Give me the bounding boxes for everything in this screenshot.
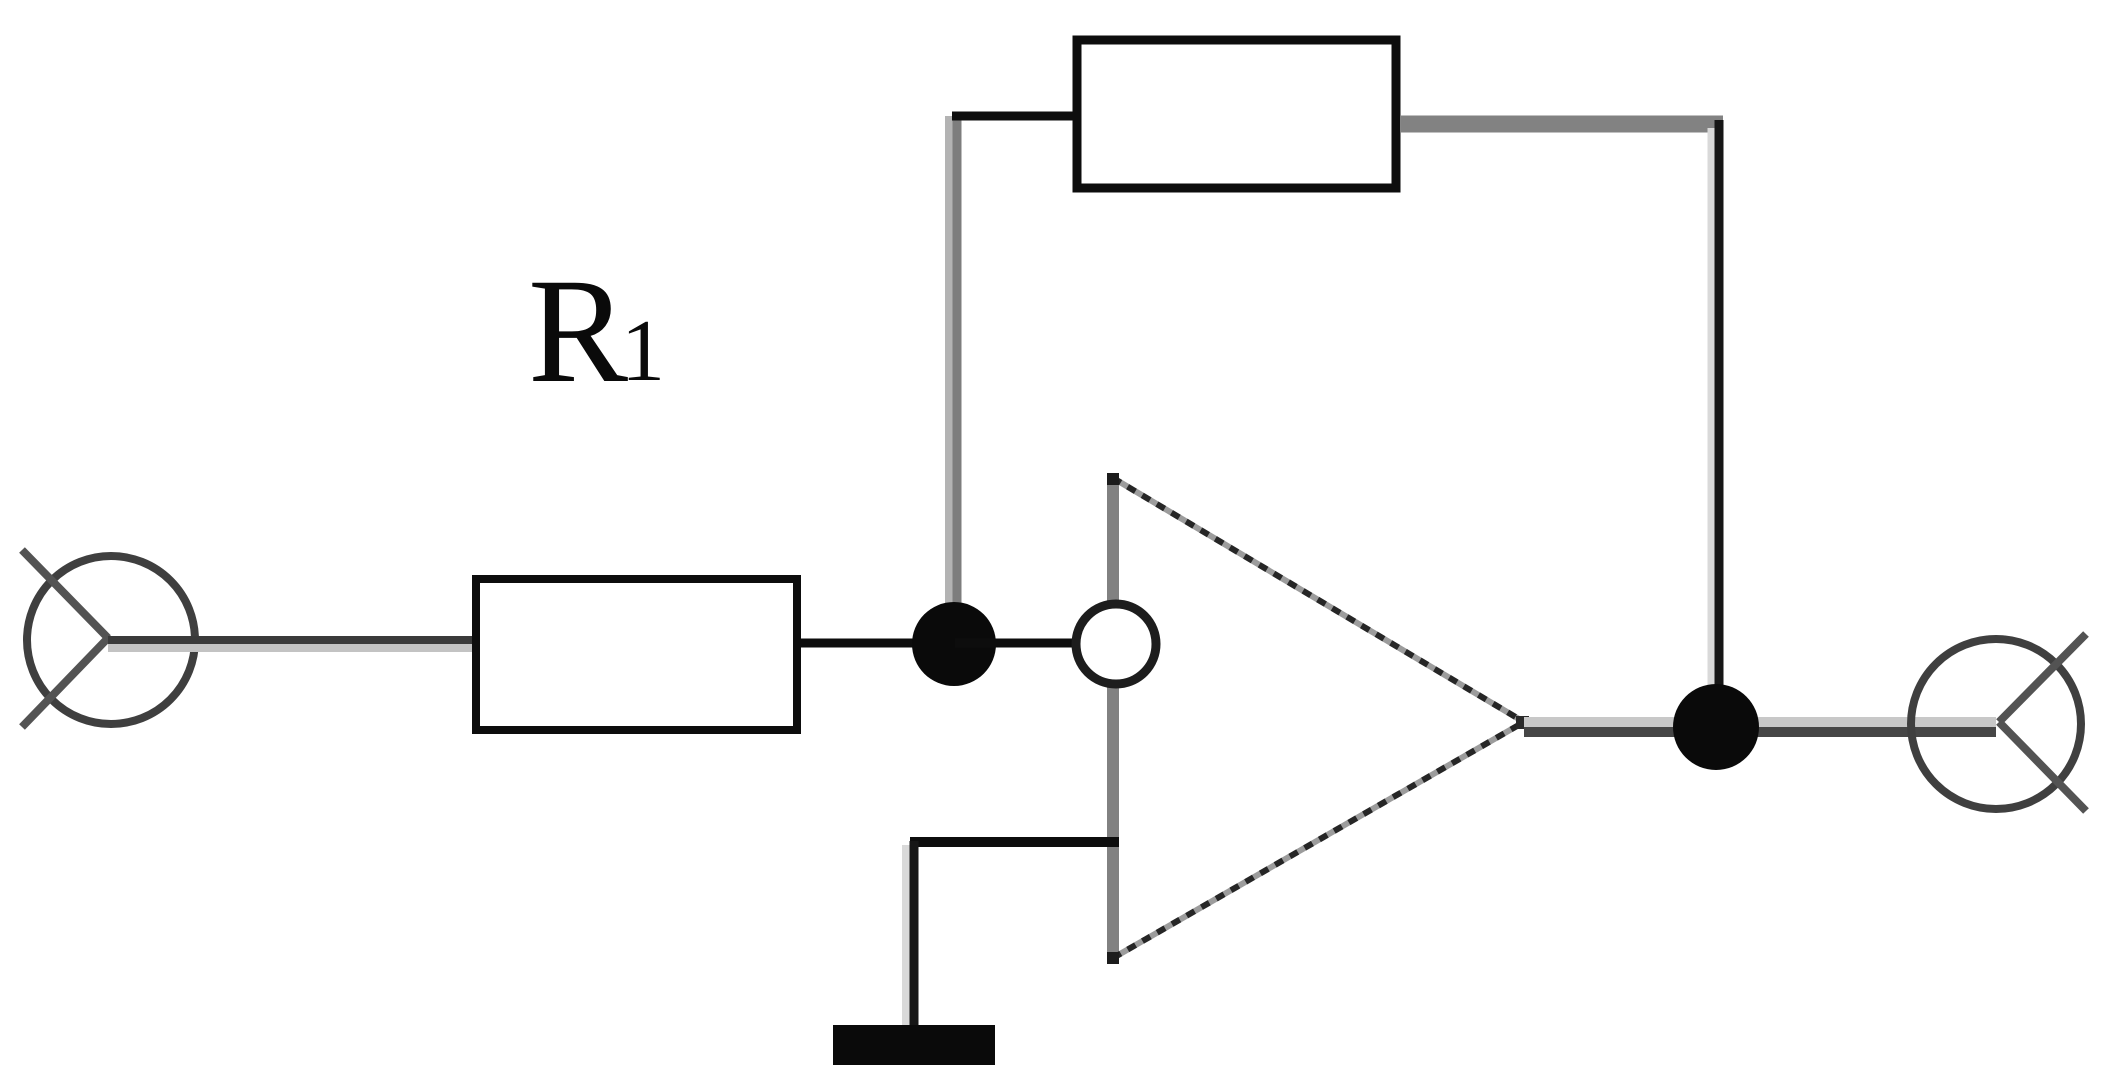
label R1 [528,248,665,414]
input terminal T1 [22,550,195,727]
node A (inverting input junction) [912,602,996,686]
inverting input bubble [1076,604,1156,684]
wire input T1 to R1 (dark with light echo below) [108,640,474,648]
wire R1 to node A [800,639,953,648]
wire node A to inverting bubble [955,639,1073,648]
output node [1673,684,1759,770]
output wire (light above, dark below) [1524,722,1996,732]
svg-text:1: 1 [621,303,665,400]
op-amp U1 [1107,473,1529,964]
wire node A up to feedback (gray vertical with light echo) [949,116,957,620]
resistor R2 (feedback) [1077,40,1396,188]
ground [833,1025,995,1065]
resistor R1 [476,579,797,730]
output terminal T2 [1911,634,2086,811]
svg-text:R: R [528,248,628,414]
wire feedback right horizontal (gray) [1401,116,1723,133]
non-inverting input wire (horizontal + vertical with light echo) [906,841,1119,1030]
wire feedback top-left horizontal (black) [952,112,1074,121]
wire right vertical down to output node (black with light echo) [1711,120,1719,724]
